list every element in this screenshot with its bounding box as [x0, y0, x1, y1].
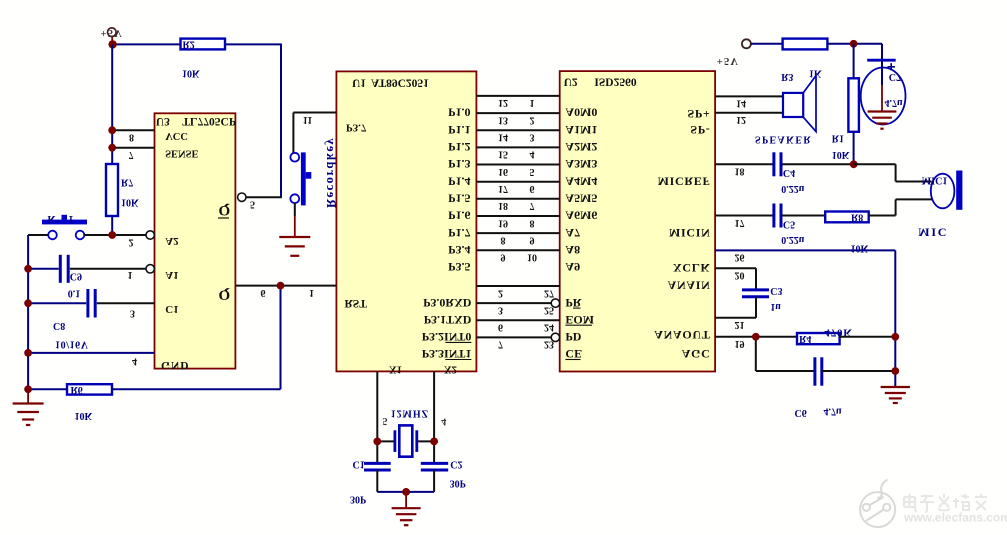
- wire U3 pin8 VCC: [112, 129, 154, 131]
- junction X1: [373, 438, 381, 446]
- U3 pin2 bubble: [146, 231, 154, 239]
- IC U2 ISD2560: [560, 71, 715, 371]
- svg-text:8: 8: [501, 234, 506, 245]
- U3 pin5 bubble: [238, 193, 246, 201]
- svg-text:R2: R2: [183, 38, 195, 49]
- svg-text:11: 11: [303, 114, 312, 125]
- wire P1.0 to A0M0 pins 12-1: [476, 95, 559, 97]
- svg-text:6: 6: [261, 287, 266, 298]
- svg-text:7: 7: [530, 200, 535, 211]
- crystal 12MHZ: [377, 440, 395, 442]
- svg-text:A4M4: A4M4: [565, 174, 597, 188]
- svg-text:10K: 10K: [851, 242, 869, 253]
- svg-text:3: 3: [130, 307, 135, 318]
- svg-text:K1: K1: [48, 213, 87, 224]
- wire caps to ground: [376, 470, 378, 492]
- rail +5V down to U3: [111, 44, 113, 164]
- svg-text:5: 5: [383, 415, 388, 426]
- svg-text:C7: C7: [889, 71, 901, 82]
- junction pin4: [24, 349, 32, 357]
- svg-text:12: 12: [736, 114, 746, 125]
- svg-text:A9: A9: [565, 260, 580, 274]
- IC U1 AT89C2051: [336, 71, 476, 371]
- overbar CE: [565, 359, 580, 361]
- svg-text:MIC: MIC: [918, 226, 948, 240]
- svg-text:Recordkey: Recordkey: [324, 137, 338, 208]
- svg-text:RST: RST: [345, 297, 368, 309]
- svg-text:17: 17: [498, 183, 508, 194]
- svg-text:5: 5: [250, 199, 255, 210]
- svg-text:P3.0RXD: P3.0RXD: [423, 296, 472, 310]
- wire P1.1 to A1M1 pins 13-2: [476, 112, 559, 114]
- svg-text:P3.1TXD: P3.1TXD: [424, 313, 472, 327]
- svg-text:MICIN: MICIN: [669, 226, 711, 240]
- pushbutton K2 record key: [301, 152, 306, 205]
- svg-text:8: 8: [129, 131, 134, 142]
- junction pin7: [108, 144, 116, 152]
- svg-text:10K: 10K: [182, 68, 200, 79]
- svg-text:C2: C2: [450, 459, 462, 470]
- wire MICREF pin18: [715, 163, 773, 165]
- svg-text:A1: A1: [165, 269, 178, 281]
- wire R8 to MIC1: [869, 215, 896, 217]
- microphone MIC1: [931, 174, 955, 209]
- bubble CE: [551, 333, 559, 341]
- svg-text:www.elecfans.com: www.elecfans.com: [903, 511, 1007, 525]
- wire ANAIN pin20: [715, 267, 756, 269]
- svg-text:A6M6: A6M6: [565, 209, 597, 223]
- svg-text:7: 7: [498, 339, 503, 350]
- resistor R3: [783, 39, 828, 50]
- svg-text:A1M1: A1M1: [565, 123, 597, 137]
- capacitor C9: [28, 268, 59, 270]
- junction crystal ground: [402, 488, 410, 496]
- wire P1.3 to A3M3 pins 15-4: [476, 146, 559, 148]
- svg-text:1: 1: [530, 97, 535, 108]
- svg-text:U2: U2: [564, 75, 578, 87]
- svg-text:16: 16: [498, 166, 508, 177]
- overbar PR: [573, 307, 581, 309]
- svg-text:19: 19: [498, 217, 508, 228]
- svg-text:X1: X1: [389, 363, 402, 374]
- svg-text:25: 25: [544, 304, 554, 315]
- svg-text:P3.5: P3.5: [448, 260, 470, 274]
- U3 pin1 bubble: [146, 265, 154, 273]
- svg-text:A5M5: A5M5: [565, 192, 597, 206]
- junction RST node: [277, 282, 285, 290]
- junction at +5V: [108, 40, 116, 48]
- svg-text:7: 7: [129, 149, 134, 160]
- svg-text:20: 20: [735, 270, 745, 281]
- svg-text:4: 4: [530, 149, 535, 160]
- svg-text:X2: X2: [444, 363, 457, 374]
- svg-text:8: 8: [530, 217, 535, 228]
- junction R1 top: [850, 40, 858, 48]
- svg-text:1u: 1u: [770, 301, 781, 312]
- resistor R1: [853, 44, 855, 79]
- wire P1.2 to A2M2 pins 14-3: [476, 129, 559, 131]
- wire P1.5 to A5M5 pins 17-6: [476, 181, 559, 183]
- wire SP- pin12 to speaker: [715, 112, 783, 114]
- svg-text:18: 18: [498, 200, 508, 211]
- svg-text:P3.4: P3.4: [448, 243, 470, 257]
- svg-text:ANAIN: ANAIN: [668, 279, 711, 293]
- overbar INT1: [445, 359, 471, 361]
- svg-text:2: 2: [129, 237, 134, 248]
- power +5V (left): [111, 37, 113, 45]
- svg-text:6: 6: [530, 183, 535, 194]
- capacitor C4: [772, 152, 775, 176]
- svg-text:Q: Q: [219, 286, 231, 302]
- wire P1.7 to A7 pins 19-8: [476, 215, 559, 217]
- bubble EOM: [551, 299, 559, 307]
- svg-text:A8: A8: [565, 243, 580, 257]
- svg-text:TL7705CP: TL7705CP: [182, 115, 236, 127]
- junction pin8: [108, 126, 116, 134]
- svg-text:C5: C5: [783, 218, 795, 229]
- svg-text:C1: C1: [165, 303, 178, 315]
- svg-text:P1.2: P1.2: [448, 140, 470, 154]
- svg-text:C4: C4: [783, 167, 795, 178]
- svg-text:9: 9: [530, 234, 535, 245]
- svg-text:SP+: SP+: [688, 107, 711, 121]
- svg-text:P3.7: P3.7: [346, 122, 367, 134]
- svg-text:4.7u: 4.7u: [885, 97, 904, 108]
- wire U1 pin11 P3.7: [293, 112, 336, 114]
- svg-text:15: 15: [498, 149, 508, 160]
- ground XCLK rail: [881, 386, 910, 388]
- svg-text:5: 5: [530, 166, 535, 177]
- svg-text:A0M0: A0M0: [565, 106, 597, 120]
- capacitor C6: [755, 337, 757, 371]
- svg-text:ANAOUT: ANAOUT: [654, 328, 710, 342]
- junction C8: [24, 299, 32, 307]
- svg-text:P1.5: P1.5: [448, 192, 470, 206]
- svg-text:30P: 30P: [450, 477, 466, 488]
- svg-text:10K: 10K: [75, 410, 93, 421]
- wire P3.1TXD to EOM pins 3-25: [476, 302, 551, 304]
- overbar INT0: [445, 341, 471, 343]
- resistor R8: [825, 212, 869, 223]
- junction mic bias: [850, 160, 858, 168]
- resistor R2: [181, 39, 226, 50]
- svg-text:+5V: +5V: [101, 27, 123, 38]
- svg-text:4: 4: [441, 415, 446, 426]
- svg-text:MICREF: MICREF: [658, 175, 711, 189]
- svg-text:U1: U1: [352, 76, 366, 88]
- svg-text:SENSE: SENSE: [165, 148, 198, 159]
- svg-text:SP-: SP-: [690, 123, 710, 137]
- svg-text:10K: 10K: [121, 197, 139, 208]
- svg-text:13: 13: [498, 114, 508, 125]
- capacitor C3: [742, 288, 769, 291]
- svg-text:R7: R7: [121, 177, 133, 188]
- svg-text:21: 21: [735, 319, 745, 330]
- capacitor C5: [772, 204, 775, 228]
- svg-text:P1.7: P1.7: [448, 226, 470, 240]
- wire P3.5 to A9 pins 9-10: [476, 249, 559, 251]
- svg-text:SPEAKER: SPEAKER: [755, 134, 812, 145]
- ground left rail: [27, 389, 29, 403]
- svg-text:R4: R4: [799, 333, 811, 344]
- svg-text:17: 17: [735, 217, 745, 228]
- wire P1.4 to A4M4 pins 16-5: [476, 164, 559, 166]
- svg-text:30P: 30P: [350, 493, 366, 504]
- wire P3.0RXD to PR pins 2-27: [476, 285, 559, 287]
- svg-text:A3M3: A3M3: [565, 157, 597, 171]
- speaker: [803, 76, 816, 132]
- overbar EOM: [565, 324, 592, 326]
- svg-text:U3: U3: [156, 115, 170, 127]
- svg-text:2: 2: [498, 287, 503, 298]
- svg-text:9: 9: [501, 252, 506, 263]
- svg-text:19: 19: [735, 338, 745, 349]
- wire AGC pin19: [715, 336, 797, 338]
- svg-text:0.22u: 0.22u: [781, 234, 805, 245]
- wire SP+ pin14 to speaker: [715, 95, 783, 97]
- capacitor C8: [28, 302, 86, 304]
- wire U3 pin6 to U1 pin1 RST: [235, 285, 336, 287]
- svg-text:4.7u: 4.7u: [824, 406, 843, 417]
- junction R4 right: [891, 333, 899, 341]
- svg-text:P1.4: P1.4: [448, 174, 470, 188]
- svg-text:23: 23: [544, 339, 554, 350]
- wire +5V to R2: [113, 43, 181, 45]
- capacitor C1: [364, 462, 391, 465]
- wire P3.2INT0 to PD pins 6-24: [476, 319, 559, 321]
- svg-text:4: 4: [132, 356, 137, 367]
- svg-text:14: 14: [736, 98, 746, 109]
- watermark logo: [860, 492, 895, 527]
- svg-text:MIC1: MIC1: [922, 175, 948, 186]
- wire X2 leg: [433, 371, 435, 463]
- svg-text:Q: Q: [219, 202, 231, 218]
- svg-text:R6: R6: [71, 384, 83, 395]
- junction AGC: [752, 333, 760, 341]
- svg-text:2: 2: [530, 114, 535, 125]
- svg-text:10K: 10K: [832, 149, 850, 160]
- svg-text:GND: GND: [161, 359, 190, 371]
- wire XCLK pin26 to ground: [715, 249, 895, 251]
- wire P3.4 to A8 pins 8-9: [476, 232, 559, 234]
- svg-text:6: 6: [498, 322, 503, 333]
- svg-text:12: 12: [498, 97, 508, 108]
- junction R6: [24, 385, 32, 393]
- svg-text:0.1: 0.1: [68, 288, 81, 299]
- svg-text:C1: C1: [353, 459, 365, 470]
- wire P3.3INT1 to CE pins 7-23: [476, 336, 551, 338]
- svg-text:14: 14: [498, 132, 508, 143]
- svg-text:10/16V: 10/16V: [55, 338, 89, 349]
- ground of K2: [294, 203, 296, 216]
- junction X2: [430, 438, 438, 446]
- svg-text:A2: A2: [165, 235, 179, 247]
- wire K1 to U3 pin2: [84, 234, 146, 236]
- wire R7 to K1 row: [111, 216, 113, 235]
- svg-text:3: 3: [530, 132, 535, 143]
- svg-text:A2M2: A2M2: [565, 140, 597, 154]
- svg-text:18: 18: [735, 166, 745, 177]
- wire R3 to C7: [827, 43, 882, 45]
- svg-text:R1: R1: [832, 132, 844, 143]
- svg-text:26: 26: [735, 252, 745, 263]
- svg-text:24: 24: [544, 322, 554, 333]
- svg-text:10: 10: [527, 252, 537, 263]
- resistor R7: [106, 164, 118, 216]
- ground C7: [881, 60, 883, 85]
- svg-text:VCC: VCC: [165, 130, 188, 141]
- IC U3 TL7705CP: [155, 113, 236, 368]
- ground crystal: [405, 492, 407, 508]
- wire +5V to R3: [751, 43, 783, 45]
- svg-text:P1.3: P1.3: [448, 157, 470, 171]
- svg-text:AT89C2051: AT89C2051: [371, 76, 429, 88]
- svg-text:R3: R3: [781, 71, 793, 82]
- svg-text:AGC: AGC: [682, 347, 711, 361]
- svg-text:PD: PD: [565, 330, 581, 344]
- wire K1 to rail: [28, 234, 48, 236]
- wire C3 to ANAOUT pin21: [755, 297, 757, 318]
- junction C6 right: [891, 367, 899, 375]
- svg-text:C9: C9: [70, 270, 82, 281]
- svg-text:ISD2560: ISD2560: [594, 75, 636, 87]
- capacitor C7 electrolytic: [867, 59, 896, 62]
- svg-text:27: 27: [544, 287, 554, 298]
- svg-text:P1.6: P1.6: [448, 209, 470, 223]
- resistor R4: [797, 333, 840, 344]
- svg-text:XCLK: XCLK: [673, 261, 710, 275]
- wire U3 pin7 SENSE: [112, 147, 154, 149]
- pushbutton K1: [62, 215, 68, 220]
- svg-text:C8: C8: [53, 320, 65, 331]
- wire R6 to RST node: [112, 388, 281, 390]
- svg-text:+5V: +5V: [717, 55, 739, 66]
- svg-text:P1.0: P1.0: [448, 106, 470, 120]
- svg-text:0.22u: 0.22u: [781, 183, 805, 194]
- svg-text:R8: R8: [851, 211, 863, 222]
- junction K1 row: [108, 231, 116, 239]
- wire U3 pin4 GND: [28, 352, 154, 354]
- svg-text:1: 1: [309, 287, 314, 298]
- wire bias to MIC1: [854, 163, 896, 165]
- svg-text:1: 1: [128, 269, 133, 280]
- wire P1.6 to A6M6 pins 18-7: [476, 198, 559, 200]
- resistor R6: [28, 388, 67, 390]
- capacitor C2: [421, 462, 448, 465]
- svg-text:C3: C3: [770, 285, 782, 296]
- svg-text:3: 3: [498, 304, 503, 315]
- wire MICIN pin17: [715, 215, 773, 217]
- svg-text:C6: C6: [795, 407, 807, 418]
- junction C9: [24, 265, 32, 273]
- svg-text:12MHZ: 12MHZ: [391, 407, 429, 418]
- power +5V (right): [742, 39, 751, 48]
- svg-text:P1.1: P1.1: [448, 123, 470, 137]
- watermark brand glyphs: [904, 494, 987, 512]
- wire X1 leg: [376, 371, 378, 463]
- svg-text:A7: A7: [565, 226, 580, 240]
- left rail: [27, 235, 29, 389]
- wire R2 to U3 pin5: [225, 43, 281, 45]
